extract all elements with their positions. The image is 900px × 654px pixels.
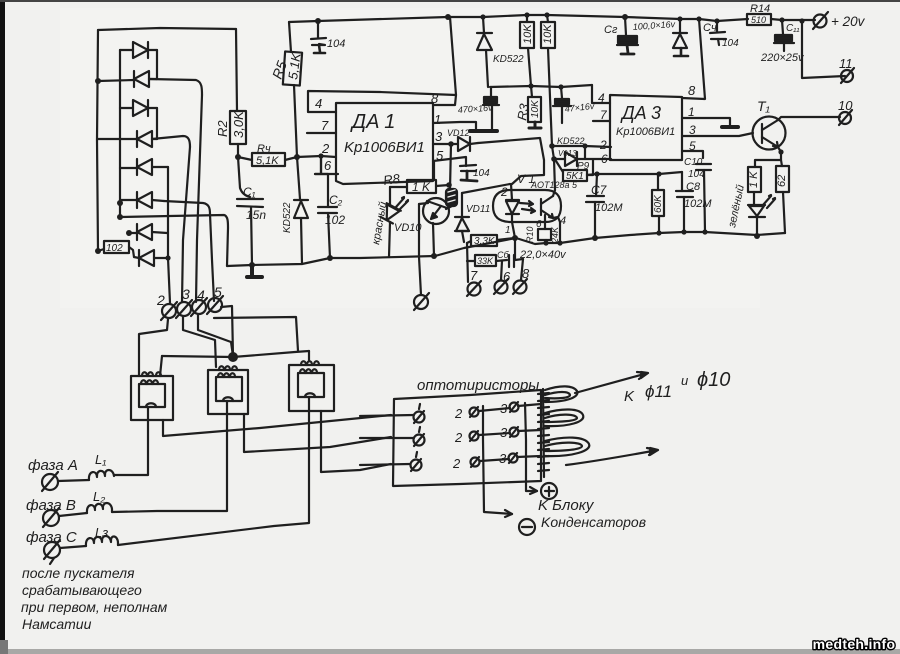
svg-text:ϕ11: ϕ11 — [645, 382, 672, 401]
capacitor C3 104 — [311, 21, 345, 53]
svg-text:VD12: VD12 — [447, 128, 470, 138]
svg-text:Kр1006BИ1: Kр1006BИ1 — [616, 126, 675, 138]
svg-text:фаза C: фаза C — [26, 529, 77, 546]
node D8-t2 — [165, 255, 170, 260]
svg-text:Cч: Cч — [703, 22, 717, 34]
svg-text:срабатывающего: срабатывающего — [22, 582, 142, 598]
svg-text:220×25v: 220×25v — [760, 52, 805, 64]
diode VD13 — [554, 149, 611, 166]
wire DA1 pin3 — [433, 143, 451, 145]
svg-text:3: 3 — [182, 286, 190, 302]
wire tr3 secondary left to L3 — [118, 397, 309, 545]
wire top rail — [289, 15, 748, 22]
thyristor loop 1 — [545, 386, 577, 402]
wire V1 pin4 emitter down — [559, 222, 561, 243]
wire DA3 pin4 — [592, 85, 610, 103]
wire term5 right and down — [221, 306, 233, 356]
node bus big dot — [228, 352, 238, 362]
wire pin1 node down — [514, 238, 516, 259]
diode VD2 — [98, 71, 157, 87]
svg-text:1 K: 1 K — [412, 180, 431, 194]
wire to terminal 11 — [802, 21, 845, 78]
svg-text:62: 62 — [776, 175, 788, 187]
terminal 6 — [494, 269, 511, 294]
svg-text:4: 4 — [598, 91, 605, 105]
wire tr2 secondary left to L2 — [112, 401, 227, 512]
row 3 — [360, 451, 541, 471]
wire D4 row to right — [152, 136, 190, 147]
svg-text:102: 102 — [106, 243, 123, 254]
svg-text:Rч: Rч — [257, 143, 271, 155]
svg-text:3: 3 — [689, 123, 696, 137]
node emitter — [778, 149, 783, 154]
transformer TR2 — [208, 366, 248, 414]
resistor 10K first — [520, 15, 534, 86]
ground bar pin1 — [470, 129, 497, 133]
svg-text:1: 1 — [688, 105, 695, 119]
svg-text:102M: 102M — [595, 202, 623, 214]
svg-text:104: 104 — [688, 169, 705, 180]
svg-text:2: 2 — [454, 430, 463, 445]
diode VD6 — [120, 192, 164, 208]
svg-text:2: 2 — [321, 141, 330, 156]
resistor 102 — [98, 241, 134, 257]
svg-text:6: 6 — [503, 269, 511, 284]
node R4-R5 — [294, 154, 300, 160]
wire term6 vertical — [501, 261, 502, 280]
wire mid long to bottom rail — [120, 215, 228, 266]
svg-text:ДA 3: ДA 3 — [620, 103, 661, 123]
capacitor 47x16v — [553, 87, 595, 123]
svg-text:C10: C10 — [684, 157, 703, 168]
svg-text:R10: R10 — [525, 226, 535, 243]
node VD13 junction — [551, 156, 557, 162]
capacitor C1 — [237, 157, 266, 265]
transistor T1 — [753, 98, 786, 150]
wire T1 emitter — [755, 147, 782, 167]
wire term4 down to bus dot — [198, 315, 233, 356]
terminal 7 — [467, 268, 481, 296]
diode KD522 left column — [282, 157, 308, 264]
wire term7 vertical — [467, 243, 468, 282]
wire 3-column vertical to plus — [525, 403, 537, 491]
svg-text:R14: R14 — [750, 3, 770, 15]
wire link pin2-pin6 — [584, 146, 586, 159]
resistor 60K — [652, 174, 664, 233]
node R10-rail — [543, 240, 548, 245]
node pin2-pin6 — [318, 153, 323, 158]
svg-text:Cг: Cг — [604, 24, 618, 36]
wire tr3 secondary right to row3 — [321, 411, 391, 472]
svg-text:фаза A: фаза A — [28, 457, 78, 474]
scan border bottom — [0, 649, 900, 654]
wire rail y86 — [490, 85, 592, 87]
wire left bus — [97, 30, 98, 251]
node rail dots — [315, 18, 321, 24]
resistor R5 — [269, 22, 304, 157]
terminal 11 — [839, 56, 854, 83]
wire rail y174 — [587, 172, 682, 175]
wire inner left vertical — [119, 50, 121, 218]
svg-text:1: 1 — [434, 112, 441, 127]
diode VD5 — [120, 159, 168, 175]
svg-text:T₁: T₁ — [757, 98, 771, 114]
op-amp U DA3 box — [610, 95, 682, 160]
svg-text:KD522: KD522 — [282, 202, 293, 233]
svg-text:Kр1006BИ1: Kр1006BИ1 — [344, 139, 425, 156]
resistor R8 1K — [382, 162, 436, 194]
svg-text:5: 5 — [214, 284, 222, 300]
wire DA1 pin7 stub — [307, 132, 336, 134]
svg-text:5K1: 5K1 — [566, 171, 584, 182]
node bus-D2 — [95, 78, 101, 84]
svg-text:510: 510 — [751, 15, 766, 25]
svg-text:фаза B: фаза B — [26, 497, 76, 514]
node 60K-rail — [656, 230, 661, 235]
resistor small striped — [446, 189, 457, 206]
wire 33K row — [467, 259, 523, 261]
node C2-rail — [327, 255, 333, 261]
thyristor loop 2 — [545, 409, 583, 426]
wire primary bus — [162, 351, 309, 357]
resistor R4 — [238, 143, 297, 167]
LED green — [726, 184, 775, 236]
inductor L1 — [58, 452, 114, 481]
wire vert term4 — [196, 95, 202, 302]
wire DA1 pin8 — [433, 17, 456, 105]
LED VD10 — [380, 203, 401, 224]
scan border left — [0, 0, 5, 642]
terminal phase A — [42, 472, 58, 491]
resistor 10K second — [541, 15, 555, 146]
svg-text:L₁: L₁ — [95, 452, 106, 467]
capacitor C10 — [684, 157, 711, 232]
svg-text:5,1K: 5,1K — [256, 155, 279, 167]
node pin1-rail — [512, 235, 518, 241]
terminal minus — [519, 519, 535, 535]
node after R14 — [779, 17, 784, 22]
capacitor C7 — [586, 174, 623, 238]
svg-text:ϕ10: ϕ10 — [697, 369, 730, 391]
svg-text:+ 20v: + 20v — [831, 14, 866, 29]
wire vert term5 — [210, 214, 214, 301]
svg-text:Cб: Cб — [497, 250, 509, 260]
arrow to minus — [505, 510, 512, 517]
inductor L2 — [59, 489, 112, 516]
diode VD4 — [98, 131, 157, 147]
capacitor C4 104 — [703, 21, 739, 49]
wire bus riser tr3 — [308, 351, 310, 361]
svg-text:R8: R8 — [382, 171, 401, 188]
terminal 4 — [191, 287, 207, 316]
svg-text:C₁₁: C₁₁ — [786, 23, 800, 34]
wire DA3 pin8 — [682, 19, 705, 99]
svg-text:7: 7 — [470, 268, 478, 283]
diode KD522 top — [477, 17, 524, 87]
svg-text:VD11: VD11 — [466, 204, 490, 215]
wire top line of ladder block — [98, 28, 236, 30]
svg-text:Vд13: Vд13 — [558, 149, 577, 158]
node pin3 — [448, 141, 454, 147]
transistor VT1 — [419, 198, 449, 256]
LED inside V1 — [500, 184, 535, 236]
node LED-rail — [754, 233, 760, 239]
node R8-pin3col — [446, 182, 452, 188]
svg-text:2: 2 — [454, 406, 463, 421]
svg-text:60K: 60K — [653, 194, 664, 213]
ground bar DA3 pin1 — [722, 125, 738, 129]
svg-text:R2: R2 — [215, 120, 230, 137]
node rail174 dots — [594, 171, 599, 176]
wire V1 pin1 down — [512, 222, 515, 238]
svg-text:1 K: 1 K — [748, 171, 760, 188]
svg-text:4: 4 — [197, 287, 205, 303]
box optothyristors — [393, 390, 541, 486]
svg-text:2: 2 — [500, 185, 508, 199]
resistor 62 — [776, 166, 789, 233]
wire bus riser tr1 — [160, 356, 162, 376]
svg-text:6: 6 — [601, 152, 608, 166]
svg-text:15n: 15n — [246, 208, 266, 222]
wire bottom rail left part — [227, 232, 785, 266]
arrow to plus — [530, 487, 537, 494]
resistor R2 — [215, 29, 246, 157]
svg-text:4: 4 — [315, 96, 322, 111]
resistor R14 — [747, 3, 782, 25]
terminal phi lone — [414, 293, 429, 310]
resistor R10 — [525, 215, 560, 244]
wire term2 down to tr1 — [139, 319, 168, 376]
diode VD3 — [120, 100, 157, 139]
node bus-bottom — [95, 248, 101, 254]
svg-text:Намсатии: Намсатии — [22, 616, 92, 632]
svg-text:C₁: C₁ — [243, 185, 256, 199]
svg-text:K: K — [624, 388, 635, 405]
svg-text:6: 6 — [536, 219, 542, 230]
node pin2 wire — [582, 143, 587, 148]
comb bar — [538, 389, 549, 477]
svg-text:8: 8 — [688, 83, 696, 98]
svg-text:7: 7 — [321, 118, 329, 133]
svg-text:Lз: Lз — [95, 525, 108, 540]
node C1-rail — [249, 262, 255, 268]
svg-text:10: 10 — [838, 98, 853, 113]
scan border top — [0, 0, 900, 2]
svg-text:P9: P9 — [577, 161, 590, 172]
wire DA1 pin4 — [308, 91, 456, 112]
terminal 3 — [176, 286, 192, 318]
op-amp U DA1 box — [336, 103, 433, 184]
wire mystery y318 — [214, 317, 298, 351]
svg-text:102M: 102M — [684, 198, 712, 210]
wire DA3 pin1 to ground — [682, 118, 730, 126]
wire D2 row to right — [149, 79, 202, 95]
diode VD12 — [447, 128, 478, 151]
diode VD8 — [134, 250, 168, 266]
svg-text:5: 5 — [689, 139, 696, 153]
terminal 8 — [513, 266, 530, 294]
wire DA1 pin2 — [297, 156, 336, 157]
svg-text:medteh.info: medteh.info — [813, 636, 896, 652]
terminal 2 — [156, 292, 177, 320]
svg-text:11: 11 — [839, 56, 853, 71]
wire DA3 pin7 stub — [593, 120, 610, 122]
svg-text:Kонденсаторов: Kонденсаторов — [541, 514, 646, 530]
wire R8 left to VD10 — [390, 186, 407, 188]
svg-text:10K: 10K — [522, 24, 534, 44]
svg-text:KD522: KD522 — [557, 136, 585, 146]
svg-text:3,0K: 3,0K — [231, 110, 246, 138]
wire 10K2 col to V1 pin5 — [552, 146, 555, 190]
svg-text:C8: C8 — [686, 181, 701, 193]
svg-text:L₂: L₂ — [93, 489, 105, 504]
wire term8 vertical — [521, 259, 523, 280]
wire T1 collector to 10 — [778, 117, 840, 120]
inductor L3 — [60, 525, 118, 548]
svg-text:102: 102 — [325, 213, 345, 227]
capacitor C2 — [315, 157, 345, 258]
wire DA1 pin1 to ground — [433, 122, 476, 130]
diode VD1 — [120, 42, 157, 79]
row 1 — [360, 401, 541, 423]
resistor 1K green — [748, 167, 761, 204]
svg-text:33K: 33K — [477, 256, 494, 266]
wire VT1 base down to lone terminal — [419, 204, 421, 295]
node R2-R4 — [235, 154, 241, 160]
terminal +20v — [813, 12, 866, 29]
svg-text:4: 4 — [560, 215, 566, 227]
svg-text:3: 3 — [435, 129, 443, 144]
svg-text:3,3K: 3,3K — [474, 236, 496, 247]
wire striped box to transistor collector — [446, 206, 452, 209]
diode VD11 — [455, 193, 490, 242]
label K phi11 i phi10 — [624, 369, 730, 405]
resistor R9 5K1 — [556, 160, 593, 182]
wire pin2 DA3 — [552, 146, 611, 147]
svg-text:22,0×40v: 22,0×40v — [519, 249, 567, 261]
resistor 33K — [475, 255, 496, 266]
optocoupler V1 oval — [493, 172, 578, 222]
ground below C1 — [247, 265, 262, 277]
row 2 — [360, 425, 541, 446]
arrow to phi11 phi10 — [575, 372, 648, 393]
capacitor C8 — [676, 172, 712, 232]
svg-text:после пускателя: после пускателя — [22, 565, 135, 581]
svg-text:104: 104 — [327, 38, 345, 50]
node rail86 dots — [528, 83, 533, 88]
arrow lower right — [566, 448, 658, 465]
capacitor C9 — [604, 17, 676, 54]
svg-text:C₂: C₂ — [329, 193, 343, 207]
svg-text:8: 8 — [431, 91, 439, 106]
svg-text:104: 104 — [473, 168, 490, 179]
node C8-rail — [681, 229, 686, 234]
capacitor 470x16v — [457, 87, 499, 129]
wire tr1 secondary left to L1 — [114, 407, 148, 475]
svg-text:при первом, неполнам: при первом, неполнам — [21, 599, 168, 615]
wire DA1 pin6 — [315, 156, 338, 174]
wire to +20v — [782, 19, 815, 21]
diode VD7 — [129, 224, 167, 240]
wire tr1 secondary right to row1 — [163, 415, 391, 436]
wire vert term2 — [168, 167, 170, 303]
resistor R3 — [514, 86, 541, 128]
svg-text:10K: 10K — [530, 99, 541, 118]
wire pin3 column down — [450, 144, 451, 189]
terminal plus — [541, 483, 557, 499]
svg-text:2: 2 — [156, 292, 165, 308]
wire DA1 pin5 — [433, 157, 466, 166]
svg-text:R3: R3 — [514, 102, 532, 122]
node inner-216 — [117, 200, 123, 206]
terminal 10 — [838, 98, 853, 125]
node VT1 emitter rail — [431, 253, 437, 259]
svg-text:6: 6 — [324, 158, 332, 173]
wire 2-column vertical to minus — [483, 406, 512, 514]
svg-text:5: 5 — [436, 148, 444, 163]
svg-text:104: 104 — [722, 38, 739, 49]
svg-text:и: и — [681, 373, 688, 388]
terminal phase B — [43, 508, 59, 527]
phototransistor inside V1 — [541, 190, 560, 222]
svg-text:2: 2 — [452, 456, 461, 471]
node 10K2 col pin2 — [549, 143, 555, 149]
wire DA3 pin5 — [682, 151, 703, 158]
svg-text:K Блоку: K Блоку — [538, 497, 595, 514]
capacitor C11 — [760, 20, 805, 64]
wire D6 row to right — [164, 201, 210, 214]
svg-text:10K: 10K — [542, 24, 554, 44]
wire tr2 secondary right to row2 — [244, 414, 391, 452]
wire VD12 to V1 pin2 — [478, 138, 544, 184]
node C7-rail — [592, 235, 598, 241]
wire DA3 pin3 to T1 base — [682, 133, 753, 136]
svg-text:8: 8 — [522, 266, 530, 281]
terminal phase C — [44, 540, 60, 564]
svg-text:KD522: KD522 — [493, 54, 524, 65]
node C10-rail — [702, 229, 707, 234]
capacitor C6 — [497, 249, 567, 267]
diode by C9 — [673, 19, 688, 56]
transformer TR3 — [289, 361, 334, 411]
svg-text:2: 2 — [599, 138, 607, 152]
wire V1 pin2 slant to VD11 — [462, 184, 510, 193]
wire vert term3 — [182, 147, 190, 302]
wire term3 down to tr2 — [183, 317, 216, 367]
thyristor loop 3 — [545, 438, 589, 457]
wire R8 right to node — [436, 185, 449, 186]
resistor 3,3K — [467, 235, 515, 247]
svg-text:1: 1 — [505, 225, 511, 236]
svg-text:ДA 1: ДA 1 — [350, 111, 395, 133]
terminal 5 — [207, 284, 223, 314]
transformer TR1 — [131, 372, 173, 420]
capacitor C5 104 — [460, 165, 490, 181]
svg-text:C7: C7 — [591, 183, 608, 197]
